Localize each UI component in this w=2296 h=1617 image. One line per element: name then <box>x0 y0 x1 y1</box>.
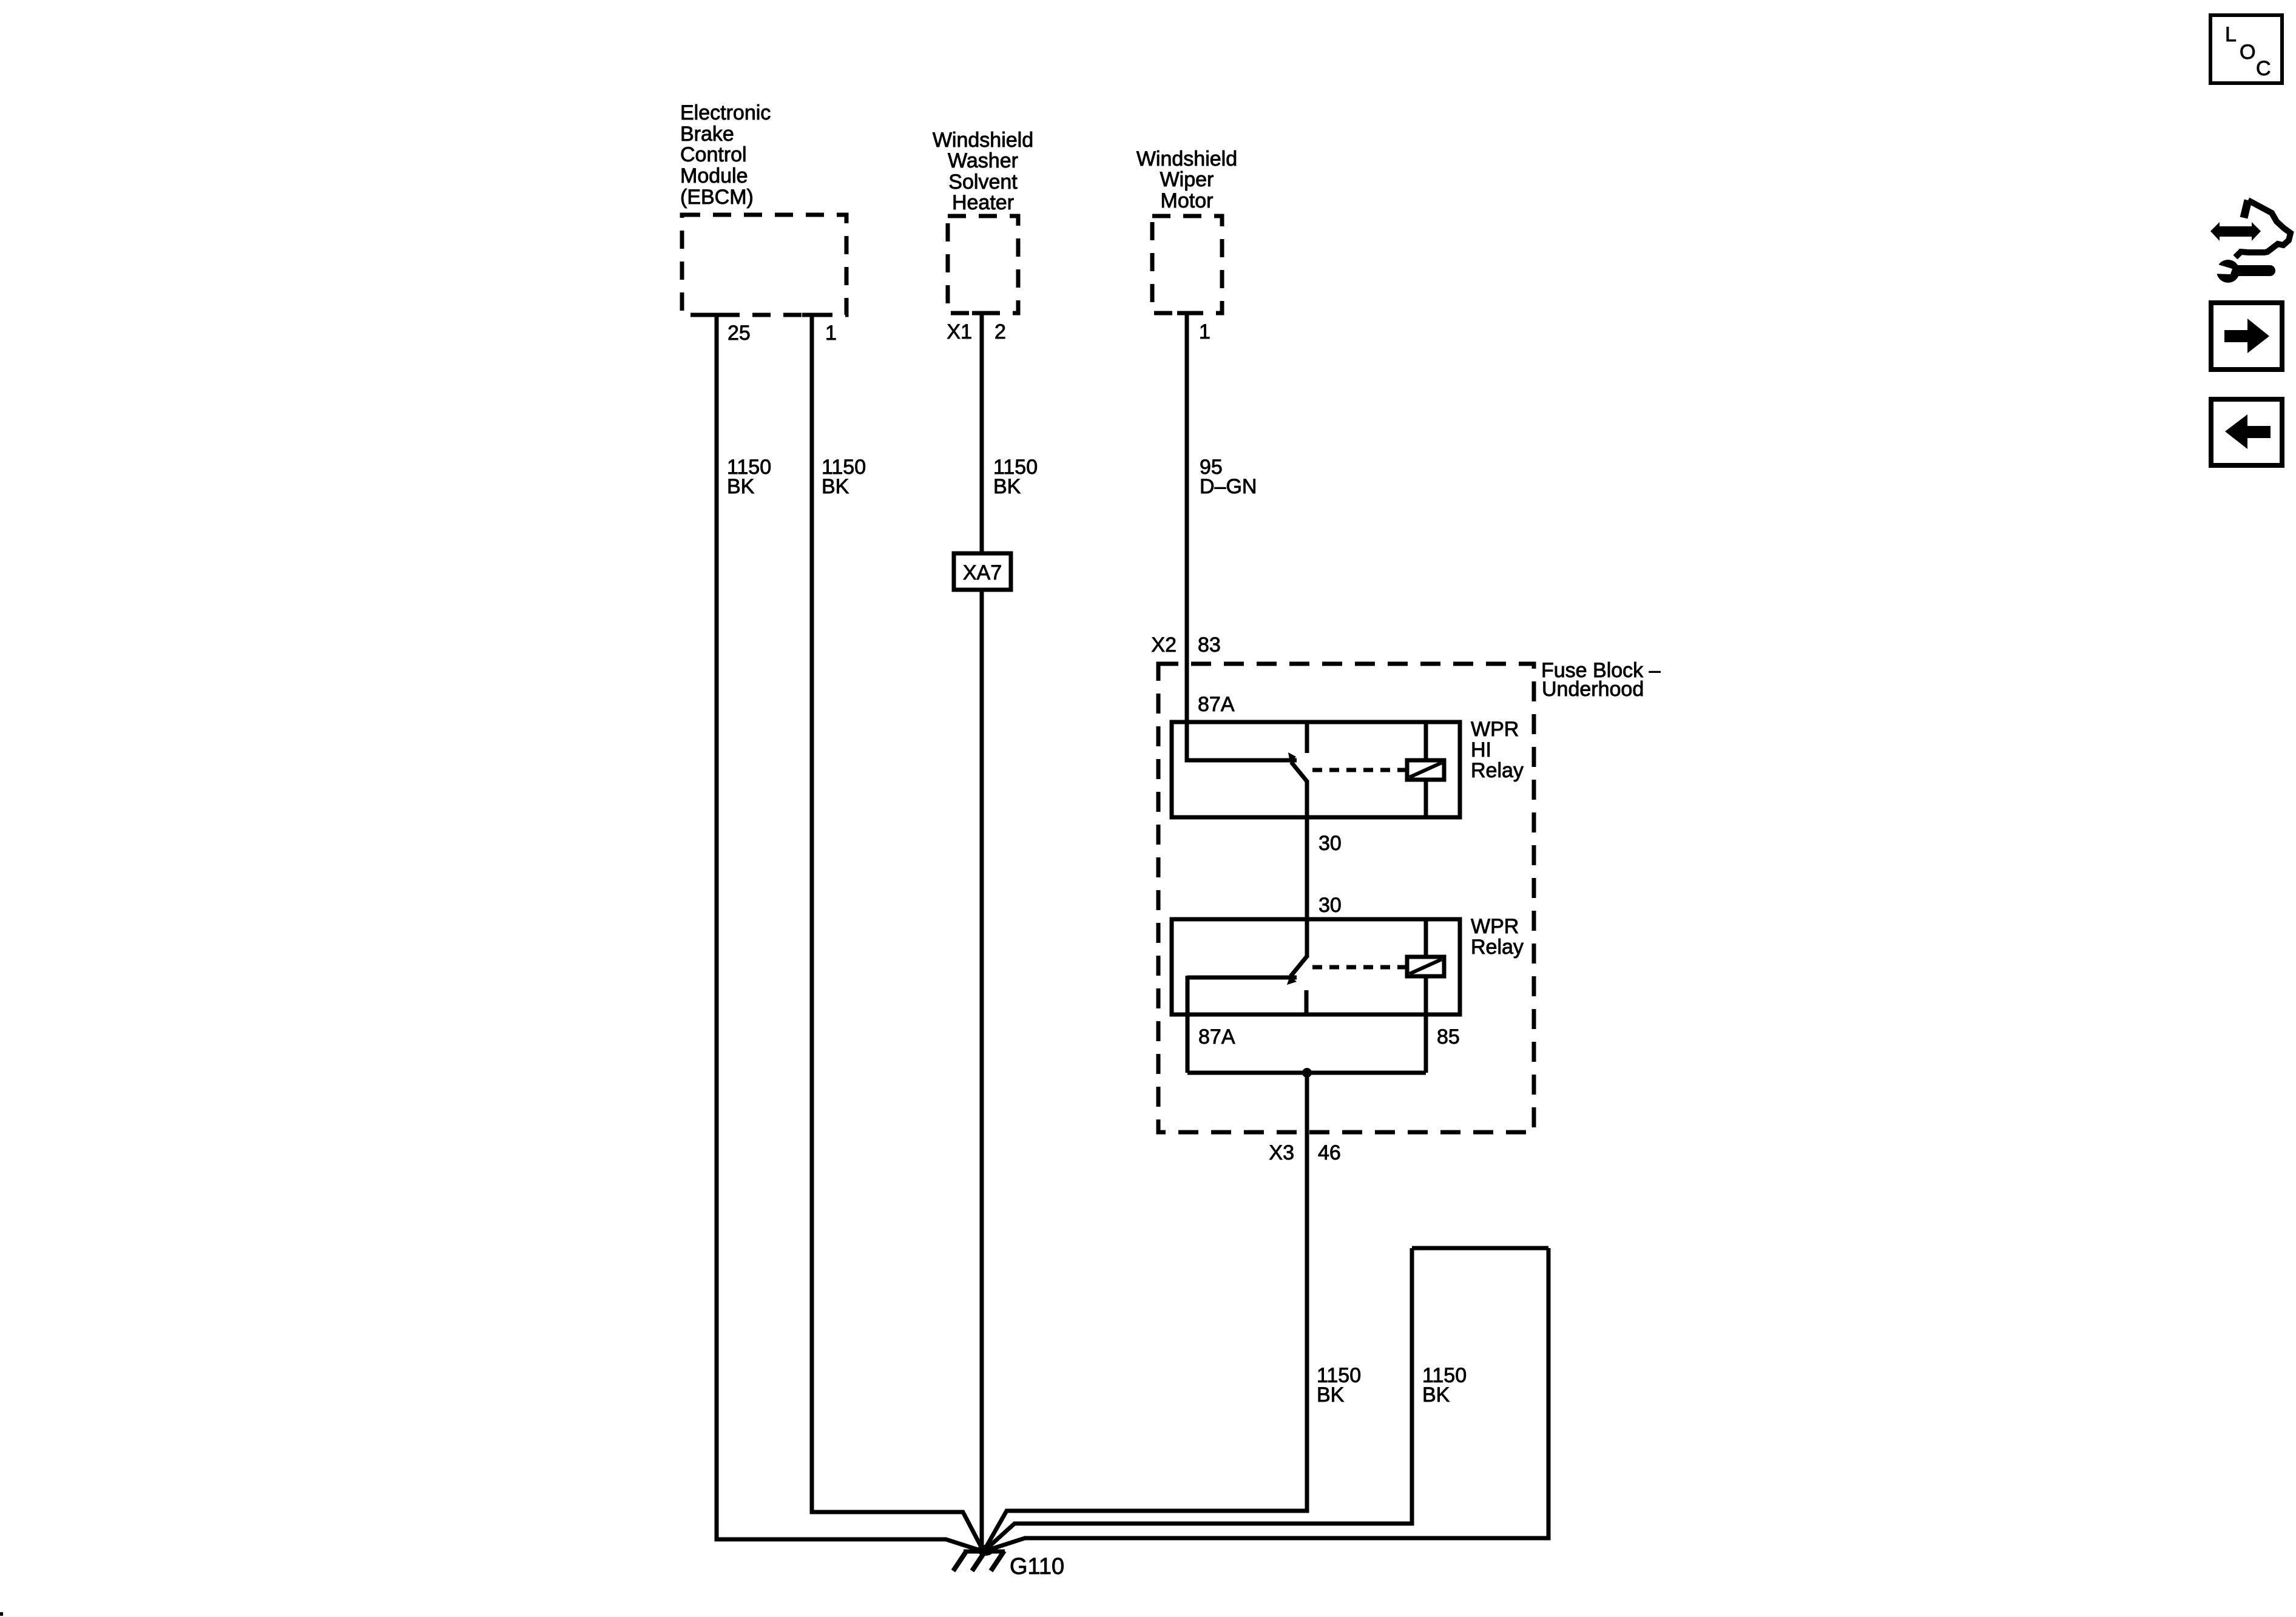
component box Windshield Wiper Motor (dashed) <box>1152 216 1222 313</box>
pin bar EBCM pin 1 <box>802 313 822 317</box>
relay WPR HI Relay outer box <box>1172 722 1460 817</box>
svg-text:WPR: WPR <box>1471 915 1519 938</box>
svg-text:X2: X2 <box>1151 633 1177 657</box>
WPR HI relay actuating link (dashed) <box>1312 768 1405 772</box>
svg-text:2: 2 <box>994 320 1006 343</box>
pin bar washer heater pin 2 <box>972 311 991 316</box>
LOC icon letters <box>2225 23 2271 80</box>
svg-text:O: O <box>2240 41 2255 64</box>
WPR relay contact arrowhead <box>1287 976 1297 985</box>
svg-text:L: L <box>2225 23 2237 46</box>
WPR HI relay coil feed upper <box>1424 722 1428 760</box>
svg-text:BK: BK <box>1317 1383 1345 1406</box>
svg-text:30: 30 <box>1319 832 1342 855</box>
component outline <box>2244 200 2248 218</box>
WPR relay actuating link (dashed) <box>1312 965 1405 970</box>
component box Windshield Washer Solvent Heater (dashed) <box>948 216 1018 313</box>
svg-text:87A: 87A <box>1198 693 1235 716</box>
svg-text:Heater: Heater <box>952 191 1014 214</box>
wire 1150 BK from washer heater to connector XA7 <box>980 311 984 552</box>
wire 1150 BK loop right leg to ground bus <box>984 1248 1548 1551</box>
svg-text:Brake: Brake <box>680 123 734 146</box>
svg-text:Solvent: Solvent <box>948 170 1018 194</box>
label WPR HI Relay <box>1471 718 1524 782</box>
wire from junction to fuse block pin 46 and ground bus <box>984 1073 1307 1551</box>
WPR relay coil feed upper <box>1424 919 1428 957</box>
pin bar wiper motor pin 1 <box>1177 311 1197 316</box>
connector XA7 <box>954 553 1011 590</box>
WPR HI relay contact arrowhead <box>1288 752 1296 763</box>
adjustable component icon (double arrow, outline, wrench) <box>2210 200 2291 283</box>
component box EBCM (dashed) <box>682 215 846 315</box>
svg-text:G110: G110 <box>1010 1554 1064 1579</box>
WPR HI relay coil box <box>1407 760 1444 780</box>
wrench <box>2217 260 2240 283</box>
svg-text:Windshield: Windshield <box>1136 147 1237 170</box>
label Windshield Washer Solvent Heater <box>933 129 1033 214</box>
svg-text:30: 30 <box>1319 894 1342 917</box>
WPR relay coil diagonal <box>1410 959 1442 974</box>
svg-text:Washer: Washer <box>948 149 1018 172</box>
svg-text:D–GN: D–GN <box>1200 475 1257 498</box>
svg-text:BK: BK <box>993 475 1021 498</box>
wire 95 D-GN from wiper motor to WPR HI relay pin 83 <box>1187 311 1297 760</box>
WPR relay contact 87A line <box>1187 976 1297 980</box>
svg-text:Motor: Motor <box>1161 189 1214 212</box>
WPR HI relay coil feed lower <box>1424 780 1428 817</box>
svg-text:BK: BK <box>822 475 849 498</box>
WPR relay coil pin 85 leg <box>1424 976 1428 1073</box>
wire 1150 BK from EBCM pin 1 to ground bus <box>812 313 984 1551</box>
forward arrow icon box <box>2211 303 2282 370</box>
WPR HI relay common leg to pin 30 <box>1305 781 1309 817</box>
wire label 1150 BK <box>993 456 1038 498</box>
relay WPR Relay outer box <box>1172 919 1460 1014</box>
wire label 1150 BK <box>822 456 866 498</box>
svg-text:83: 83 <box>1198 633 1221 657</box>
svg-text:BK: BK <box>1422 1383 1450 1406</box>
wire 1150 BK loop left leg to ground bus <box>984 1248 1412 1551</box>
svg-text:BK: BK <box>727 475 755 498</box>
svg-text:1: 1 <box>1199 320 1210 343</box>
svg-text:Module: Module <box>680 164 748 187</box>
svg-text:87A: 87A <box>1198 1025 1235 1048</box>
svg-text:Relay: Relay <box>1471 759 1524 782</box>
wire label 1150 BK (left bottom) <box>1317 1364 1361 1406</box>
WPR HI relay coil diagonal <box>1410 763 1442 777</box>
wire label 1150 BK <box>727 456 771 498</box>
label WPR Relay <box>1471 915 1524 959</box>
fuse block underhood (dashed box) <box>1158 664 1534 1132</box>
ground symbol G110 <box>953 1545 1005 1571</box>
double-headed arrow <box>2210 222 2261 241</box>
svg-text:(EBCM): (EBCM) <box>680 186 754 209</box>
WPR relay switch blade <box>1291 956 1307 976</box>
back arrow <box>2225 414 2271 449</box>
svg-text:Wiper: Wiper <box>1160 168 1214 191</box>
wire 1150 BK loop top <box>1412 1246 1548 1251</box>
junction bus below WPR relay <box>1187 1071 1426 1075</box>
svg-text:X3: X3 <box>1269 1141 1294 1164</box>
svg-text:C: C <box>2256 57 2271 80</box>
svg-text:Underhood: Underhood <box>1542 678 1644 701</box>
wire 1150 BK from connector XA7 to ground G110 <box>980 590 984 1551</box>
wire label 1150 BK (right bottom) <box>1422 1364 1467 1406</box>
WPR relay stationary contact 87 stub <box>1305 990 1309 1014</box>
svg-text:X1: X1 <box>947 320 972 343</box>
LOC icon box <box>2210 15 2282 83</box>
wire pin 30 between relays <box>1305 817 1309 919</box>
svg-text:1: 1 <box>825 322 837 345</box>
svg-text:Control: Control <box>680 143 747 166</box>
stray mark bottom-left corner <box>0 1612 3 1616</box>
svg-text:WPR: WPR <box>1471 718 1519 741</box>
WPR relay coil box <box>1407 957 1444 976</box>
label Fuse Block - Underhood <box>1541 659 1661 701</box>
wire 1150 BK from EBCM pin 25 to ground bus <box>717 313 984 1551</box>
svg-text:Windshield: Windshield <box>933 129 1033 152</box>
svg-text:XA7: XA7 <box>963 561 1002 584</box>
WPR HI relay switch blade <box>1291 762 1308 782</box>
WPR relay common leg from pin 30 <box>1305 919 1309 957</box>
pin bar EBCM pin 25 <box>707 313 726 317</box>
svg-text:Relay: Relay <box>1471 936 1524 959</box>
WPR HI relay stationary contact 87 <box>1305 722 1309 753</box>
forward arrow <box>2224 319 2269 353</box>
svg-text:25: 25 <box>728 322 751 345</box>
junction dot <box>1302 1068 1312 1078</box>
svg-text:46: 46 <box>1318 1141 1341 1164</box>
label Windshield Wiper Motor <box>1136 147 1237 212</box>
WPR relay 87A leg through box bottom <box>1186 976 1190 1073</box>
svg-text:HI: HI <box>1471 738 1491 761</box>
back arrow icon box <box>2211 399 2282 465</box>
wire label 95 D-GN <box>1200 456 1257 498</box>
svg-text:Electronic: Electronic <box>680 101 771 124</box>
label Electronic Brake Control Module (EBCM) <box>680 101 771 209</box>
svg-text:85: 85 <box>1437 1025 1460 1048</box>
